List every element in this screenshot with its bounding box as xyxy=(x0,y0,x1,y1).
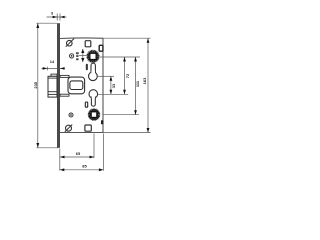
svg-text:163: 163 xyxy=(142,77,147,84)
svg-text:33: 33 xyxy=(111,83,116,88)
svg-text:14: 14 xyxy=(50,59,55,64)
svg-text:65: 65 xyxy=(76,151,81,156)
svg-text:85: 85 xyxy=(82,163,87,168)
svg-text:111: 111 xyxy=(135,80,140,87)
svg-text:235: 235 xyxy=(33,81,38,88)
svg-text:72: 72 xyxy=(125,73,130,78)
